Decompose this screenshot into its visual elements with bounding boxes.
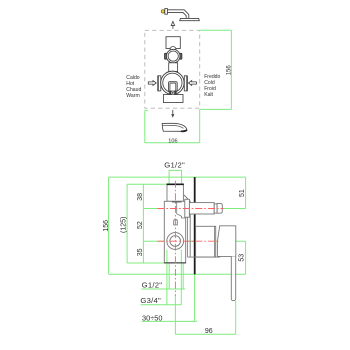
- body bottom dark edge: [164, 262, 185, 264]
- inlet shaft: [189, 203, 214, 214]
- dim (125) vertical: [126, 184, 128, 263]
- top pipe: [167, 184, 183, 201]
- svg-text:156: 156: [227, 65, 233, 76]
- svg-text:30÷50: 30÷50: [142, 313, 163, 322]
- main circle outer: [161, 71, 184, 94]
- green dimension lines: [109, 170, 246, 334]
- left dim 156 vertical: [108, 177, 110, 274]
- bath spout: [162, 123, 187, 131]
- shower arm flange yellow dot: [161, 10, 164, 13]
- ref line pipe top (y=184.3): [127, 183, 167, 185]
- green dim 156 (top diagram right): [145, 30, 232, 143]
- ref line body bottom (y=263): [127, 262, 164, 264]
- lever bar: [231, 256, 235, 300]
- inlet end cap: [217, 203, 222, 213]
- left inlet arrow: [148, 81, 156, 86]
- neck: [169, 63, 178, 72]
- dashed installation box: [145, 30, 200, 108]
- svg-text:156: 156: [103, 220, 110, 232]
- red center line valve center: [158, 240, 221, 242]
- body right second line: [187, 201, 189, 257]
- svg-text:G1/2": G1/2": [142, 280, 163, 289]
- red center line inlet: [158, 208, 224, 210]
- diverter wheel inner: [168, 51, 178, 61]
- G1/2 leader line: [142, 288, 186, 290]
- plate chamfer behind body: [184, 195, 190, 257]
- svg-text:51: 51: [239, 189, 246, 197]
- shower head: [180, 18, 200, 20]
- shower arm flange disc: [165, 9, 168, 15]
- 96 right extension (handle tip): [235, 301, 237, 334]
- small slot on body: [174, 220, 178, 225]
- volume control circle outer: [167, 233, 184, 250]
- pipe outer extension lines down: [166, 250, 168, 305]
- left body tab: [158, 76, 161, 91]
- ref line top (y=177.1): [109, 176, 246, 178]
- svg-text:G3/4": G3/4": [140, 296, 161, 305]
- volume control circle inner: [170, 236, 181, 247]
- svg-text:106: 106: [168, 138, 177, 144]
- ref line inlet center (y=208.5): [143, 208, 245, 210]
- pipe inner extension lines down: [168, 263, 170, 290]
- inlet neck: [214, 204, 217, 213]
- right dim 51 vertical: [245, 177, 247, 208]
- svg-text:(125): (125): [120, 217, 127, 233]
- handle dark band with screw: [169, 91, 177, 94]
- shower arm pipe: [167, 10, 188, 19]
- escutcheon right face second line: [213, 226, 215, 257]
- handle square: [169, 82, 178, 92]
- 30÷50 leader line: [142, 320, 198, 322]
- escutcheon bottom edge: [188, 256, 221, 258]
- internal cartridge outline: [177, 202, 186, 218]
- down arrow to spout: [172, 110, 174, 115]
- wall extension down: [194, 274, 196, 321]
- right dim 53 vertical: [245, 241, 247, 274]
- dim 38/52/35 vertical: [142, 184, 144, 263]
- right body tab: [184, 76, 187, 91]
- diverter wheel outer: [166, 49, 180, 63]
- right inlet arrow: [189, 81, 197, 86]
- svg-text:96: 96: [205, 328, 213, 335]
- up arrow (flow to shower): [172, 25, 174, 29]
- svg-text:Kalt: Kalt: [204, 92, 213, 98]
- green extension lines over body: [166, 250, 168, 263]
- wall line lower: [194, 214, 196, 274]
- ref line valve center (y=241.2): [143, 240, 245, 242]
- svg-text:Warm: Warm: [126, 93, 139, 99]
- G3/4 leader line: [141, 304, 182, 306]
- center extension down: [174, 296, 176, 334]
- escutcheon plate (right of wall): [196, 226, 216, 257]
- 96 dim line: [175, 333, 235, 335]
- top pipe black top edge: [167, 183, 184, 185]
- valve front view: top connection rect: [166, 37, 180, 49]
- body: [164, 201, 185, 263]
- main circle inner: [163, 73, 182, 92]
- svg-text:53: 53: [238, 254, 245, 262]
- diverter side lugs (dark): [165, 53, 167, 59]
- svg-text:38: 38: [137, 193, 144, 201]
- svg-text:35: 35: [137, 248, 144, 256]
- handle hub: [217, 226, 235, 257]
- svg-text:G1/2": G1/2": [164, 161, 185, 170]
- svg-text:52: 52: [137, 221, 144, 229]
- inlet flange: [185, 199, 190, 217]
- G1/2 top bracket: [169, 170, 182, 184]
- ref line bottom (y=274.3): [109, 273, 246, 275]
- wall line upper: [194, 177, 196, 202]
- bottom plate: [163, 95, 183, 103]
- diverter small top dome: [170, 47, 176, 53]
- red center line vertical: [174, 181, 176, 296]
